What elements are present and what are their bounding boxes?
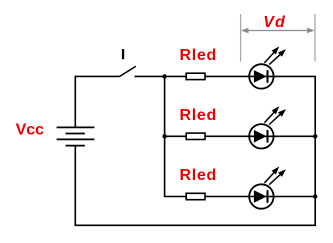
svg-text:Rled: Rled [180,47,217,64]
svg-text:Vd: Vd [263,14,286,31]
svg-text:Rled: Rled [180,107,217,124]
svg-text:Vcc: Vcc [16,122,45,139]
svg-text:Rled: Rled [180,167,217,184]
